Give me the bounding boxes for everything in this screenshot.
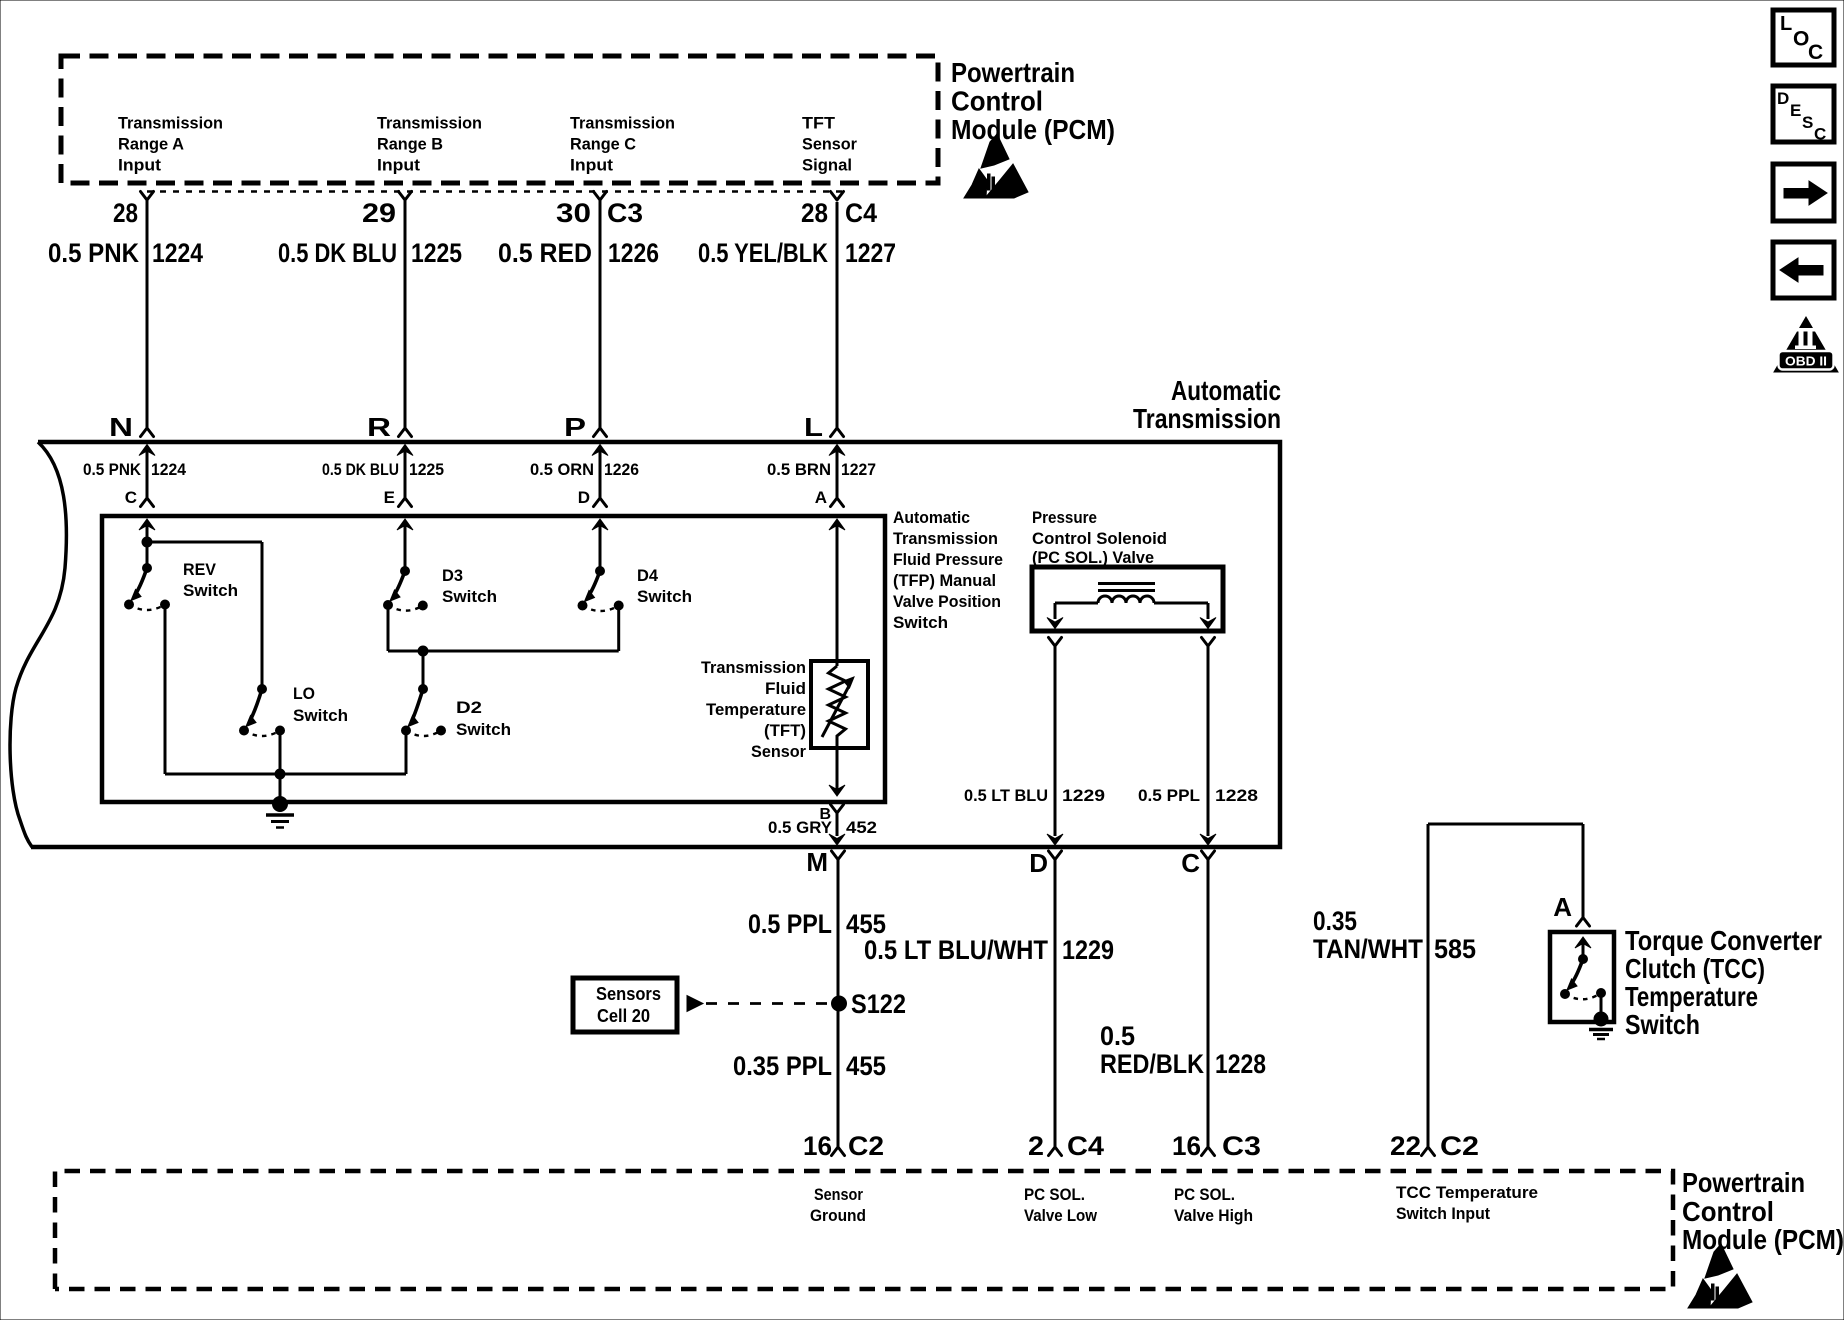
PCM module box (top) [61,56,938,183]
svg-text:Input: Input [377,156,420,175]
REV switch [143,564,152,573]
wire REV junction to pivot [146,542,149,568]
svg-text:Fluid: Fluid [765,679,806,698]
ESD sensitivity symbol (top) [964,134,1028,198]
terminal fork pin 16 C3 [1202,1147,1215,1156]
svg-text:Valve Low: Valve Low [1024,1206,1098,1225]
svg-text:Control: Control [1682,1196,1774,1227]
svg-text:C2: C2 [1440,1131,1479,1161]
svg-text:Fluid Pressure: Fluid Pressure [893,550,1003,569]
wire 1224 PCM to transmission [146,200,149,428]
svg-text:Switch: Switch [893,613,948,632]
svg-text:Switch: Switch [637,587,692,606]
svg-text:C4: C4 [845,198,877,228]
TFP manual valve position switch box [102,516,885,802]
wire REV right contact to ground bus [164,607,167,774]
svg-text:1227: 1227 [841,460,876,479]
wire D3 left contact down [387,608,390,651]
svg-text:Control: Control [951,86,1043,117]
wire 1226 PCM to transmission [599,200,602,428]
svg-text:C3: C3 [607,198,643,228]
svg-text:A: A [815,488,827,507]
svg-text:(TFP) Manual: (TFP) Manual [893,571,996,590]
terminal fork pin 22 C2 [1422,1147,1435,1156]
svg-text:N: N [109,412,133,442]
svg-text:L: L [1780,13,1792,35]
arrow at transmission box bottom (D) [1047,834,1063,845]
terminal fork at PCM pin x=405 [399,192,412,201]
svg-text:Switch: Switch [456,720,511,739]
svg-text:1228: 1228 [1215,1049,1266,1079]
svg-text:C: C [125,488,137,507]
svg-text:Torque Converter: Torque Converter [1625,925,1822,956]
svg-text:S122: S122 [851,989,906,1019]
svg-text:Module (PCM): Module (PCM) [1682,1224,1844,1255]
svg-text:0.5 DK BLU: 0.5 DK BLU [322,460,399,479]
svg-text:Powertrain: Powertrain [951,57,1075,88]
Sensors Cell 20 callout box [573,978,677,1032]
svg-text:0.5 PPL: 0.5 PPL [1138,786,1200,805]
svg-text:28: 28 [113,198,138,228]
svg-text:D3: D3 [442,566,463,585]
svg-text:Switch: Switch [183,581,238,600]
svg-text:Range B: Range B [377,135,443,154]
terminal D [1049,851,1062,860]
svg-text:D: D [1777,89,1789,108]
svg-text:1226: 1226 [604,460,639,479]
splice S122 [832,996,847,1011]
svg-text:0.5 DK BLU: 0.5 DK BLU [278,238,397,268]
wire 1227 PCM to transmission [836,202,839,428]
svg-text:Ground: Ground [810,1206,866,1225]
svg-text:1226: 1226 [608,238,659,268]
ESD sensitivity symbol (bottom) [1688,1244,1752,1308]
TFT sensor feed wire [836,524,839,666]
svg-text:1225: 1225 [411,238,462,268]
D4 switch [596,567,605,576]
wire ground bus [165,773,406,776]
svg-text:Transmission: Transmission [118,114,223,133]
wire 455 sensor ground [837,860,840,997]
PC SOL high-side arrow [1200,618,1216,629]
connector C3/C4 dotted line [147,190,843,193]
TCC switch arrow [1575,937,1591,948]
wire PC SOL low to transmission edge [1054,646,1057,836]
svg-text:452: 452 [846,818,877,837]
svg-text:C2: C2 [848,1131,884,1161]
icon OBD II [1774,317,1838,372]
svg-text:Temperature: Temperature [1625,981,1758,1012]
wire riser to LO switch [261,542,264,689]
svg-text:Sensor: Sensor [751,742,806,761]
svg-text:OBD II: OBD II [1785,354,1827,369]
svg-text:TFT: TFT [802,114,836,133]
PC SOL low-side arrow [1047,618,1063,629]
wire TCC contact to ground [1600,996,1603,1018]
svg-text:Switch: Switch [293,706,348,725]
svg-text:Switch: Switch [442,587,497,606]
wire bus to D2 pivot [422,651,425,689]
svg-text:TCC Temperature: TCC Temperature [1396,1183,1538,1202]
svg-text:S: S [1802,113,1813,132]
svg-text:PC SOL.: PC SOL. [1024,1185,1085,1204]
wire PC SOL high to transmission edge [1207,646,1210,836]
svg-text:A: A [1553,892,1572,922]
svg-text:C: C [1808,41,1823,64]
wire TFT sensor to terminal B [836,744,839,789]
svg-text:Sensor: Sensor [802,135,857,154]
svg-text:1229: 1229 [1062,786,1105,805]
LO switch [258,685,267,694]
wire D4 right contact down [617,608,620,651]
wire REV junction to LO riser [147,541,262,544]
svg-text:Sensor: Sensor [814,1185,863,1204]
svg-text:28: 28 [801,198,828,228]
svg-text:Transmission: Transmission [377,114,482,133]
svg-text:1229: 1229 [1062,935,1114,965]
svg-text:D: D [1029,848,1048,878]
svg-text:0.5 BRN: 0.5 BRN [767,460,831,479]
svg-text:Transmission: Transmission [570,114,675,133]
svg-text:1224: 1224 [152,238,203,268]
arrow at TFP box bottom [829,785,845,796]
terminal M [832,851,845,860]
svg-text:R: R [367,412,391,442]
svg-text:16: 16 [803,1131,832,1161]
svg-text:Clutch (TCC): Clutch (TCC) [1625,953,1765,984]
svg-text:0.5 ORN: 0.5 ORN [530,460,594,479]
svg-text:16: 16 [1172,1131,1201,1161]
wire LO right contact to ground bus [279,733,282,805]
terminal fork at PCM pin x=600 [594,192,607,201]
ground symbol (TCC switch) [1589,1028,1613,1032]
svg-text:2: 2 [1028,1131,1044,1161]
svg-text:0.35 PPL: 0.35 PPL [733,1051,832,1081]
arrow at transmission box bottom (M) [829,834,845,845]
svg-text:O: O [1793,28,1809,51]
wire 1225 PCM to transmission [404,200,407,428]
svg-text:RED/BLK: RED/BLK [1100,1049,1204,1079]
icon back arrow [1773,242,1834,298]
junction ground bus [275,769,285,779]
svg-text:M: M [806,847,828,877]
arrow at transmission box bottom (C) [1200,834,1216,845]
svg-text:E: E [1790,101,1801,120]
svg-text:0.5 LT BLU/WHT: 0.5 LT BLU/WHT [864,935,1048,965]
svg-text:Input: Input [118,156,161,175]
terminal C [1202,851,1215,860]
terminal fork pin 2 C4 [1049,1147,1062,1156]
svg-text:30: 30 [556,198,591,228]
svg-text:Range A: Range A [118,135,184,154]
svg-text:Control Solenoid: Control Solenoid [1032,529,1167,548]
svg-text:1224: 1224 [151,460,186,479]
svg-text:Automatic: Automatic [1171,375,1281,406]
wire 585 TCC switch to PCM [1427,824,1430,1147]
svg-text:Switch: Switch [1625,1009,1700,1040]
svg-text:P: P [564,412,586,442]
TFT sensor thermistor element [829,666,846,744]
svg-text:Transmission: Transmission [893,529,998,548]
svg-text:C3: C3 [1222,1131,1261,1161]
svg-text:0.5 LT BLU: 0.5 LT BLU [964,786,1048,805]
svg-text:D4: D4 [637,566,659,585]
PC SOL solenoid coil [1098,582,1155,585]
terminal fork at PCM pin x=837 [831,192,844,201]
svg-text:Valve High: Valve High [1174,1206,1253,1225]
svg-text:1225: 1225 [409,460,444,479]
svg-text:0.5 PNK: 0.5 PNK [83,460,142,479]
svg-text:REV: REV [183,560,217,579]
callout arrow and dashed leader [687,996,703,1012]
ground junction (TCC) [1594,1012,1608,1026]
wire 1228 PC SOL valve high [1207,860,1210,1148]
icon forward arrow [1773,164,1834,221]
wire S122 to PCM pin 16 [837,1010,840,1147]
svg-text:Pressure: Pressure [1032,508,1097,527]
svg-text:Sensors: Sensors [596,984,661,1004]
svg-text:22: 22 [1390,1131,1421,1161]
svg-text:1227: 1227 [845,238,896,268]
wire B to transmission edge [836,813,839,836]
svg-text:Transmission: Transmission [701,658,806,677]
icon DESC [1773,86,1834,142]
svg-text:(PC SOL.) Valve: (PC SOL.) Valve [1032,548,1154,567]
PC SOL low-side fork [1049,638,1062,647]
junction at REV switch feed [142,537,152,547]
junction D2 riser on bus [418,646,428,656]
wire D2 left contact down [405,733,408,774]
svg-text:Automatic: Automatic [893,508,970,527]
svg-text:D2: D2 [456,698,482,717]
svg-text:TAN/WHT: TAN/WHT [1313,934,1423,964]
svg-text:Switch Input: Switch Input [1396,1204,1490,1223]
svg-text:Cell 20: Cell 20 [597,1006,650,1026]
Automatic Transmission box [31,442,1280,847]
svg-text:C: C [1814,125,1826,144]
svg-text:0.5 RED: 0.5 RED [498,238,592,268]
svg-text:C4: C4 [1067,1131,1104,1161]
terminal fork pin 16 C2 [832,1147,845,1156]
svg-text:PC SOL.: PC SOL. [1174,1185,1235,1204]
terminal fork at PCM pin x=147 [141,192,154,201]
TCC temperature switch [1579,955,1588,964]
svg-text:Valve Position: Valve Position [893,592,1001,611]
svg-text:Powertrain: Powertrain [1682,1167,1805,1198]
svg-text:0.5 YEL/BLK: 0.5 YEL/BLK [698,238,828,268]
svg-text:Module (PCM): Module (PCM) [951,114,1115,145]
TCC temperature switch box [1550,932,1614,1022]
svg-text:585: 585 [1434,934,1476,964]
wire bus D3 to D4 [388,650,619,653]
svg-text:LO: LO [293,684,315,703]
svg-text:1228: 1228 [1215,786,1258,805]
wire 1229 PC SOL valve low [1054,860,1057,1148]
svg-text:(TFT): (TFT) [764,721,806,740]
PC SOL high-side fork [1202,638,1215,647]
svg-text:Transmission: Transmission [1133,403,1281,434]
svg-text:0.5 PPL: 0.5 PPL [748,909,832,939]
ground symbol (TFP switch) [266,813,294,817]
D2 switch [419,685,428,694]
svg-text:E: E [384,488,395,507]
svg-text:0.35: 0.35 [1313,906,1357,936]
svg-text:Range C: Range C [570,135,636,154]
svg-text:0.5 PNK: 0.5 PNK [48,238,139,268]
PCM module box (bottom) [55,1171,1673,1289]
PC SOL valve box [1032,567,1223,631]
svg-text:29: 29 [362,198,396,228]
svg-text:455: 455 [846,1051,886,1081]
svg-text:0.5 GRY: 0.5 GRY [768,818,833,837]
terminal B fork [831,805,844,814]
svg-text:0.5: 0.5 [1100,1021,1135,1051]
svg-text:D: D [578,488,590,507]
svg-text:Signal: Signal [802,156,852,175]
icon LOC [1773,10,1834,65]
svg-text:Input: Input [570,156,613,175]
svg-text:C: C [1181,848,1200,878]
D3 switch [401,567,410,576]
svg-text:L: L [804,412,823,442]
svg-text:Temperature: Temperature [706,700,806,719]
ground G103 junction [273,797,288,812]
TFT sensor box [811,661,868,748]
